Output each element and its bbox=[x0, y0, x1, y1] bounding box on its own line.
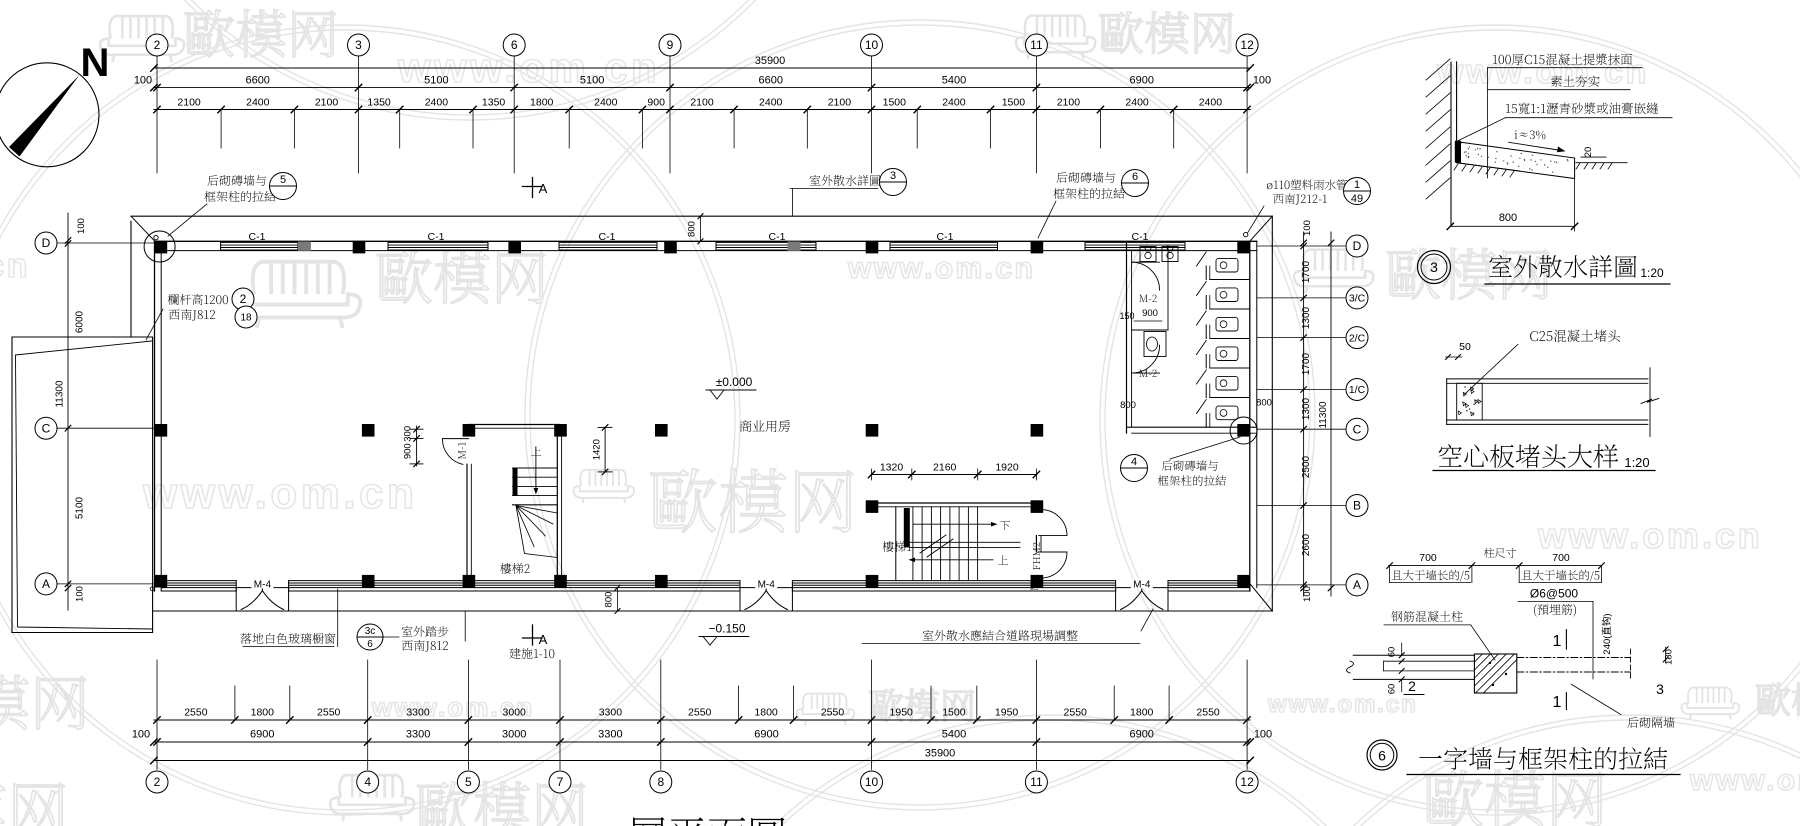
urinal nook bbox=[1167, 246, 1169, 330]
svg-text:6600: 6600 bbox=[759, 75, 783, 87]
svg-text:A: A bbox=[42, 577, 50, 591]
svg-text:1500: 1500 bbox=[883, 97, 907, 109]
stair2 door M-1 bbox=[442, 438, 468, 440]
svg-text:5: 5 bbox=[280, 174, 286, 186]
svg-text:5: 5 bbox=[465, 775, 472, 789]
bottom grid bubbles and lines bbox=[156, 660, 158, 770]
circled column C/12 (tie ref 4) bbox=[1237, 424, 1250, 437]
svg-text:800: 800 bbox=[1256, 398, 1272, 409]
svg-text:6900: 6900 bbox=[754, 729, 778, 741]
detail1 joint bar bbox=[1455, 141, 1461, 163]
svg-text:C-1: C-1 bbox=[769, 231, 786, 243]
stair1 bbox=[872, 502, 1037, 504]
svg-text:20: 20 bbox=[1583, 147, 1594, 158]
svg-text:800: 800 bbox=[1120, 400, 1136, 411]
svg-text:180: 180 bbox=[1664, 649, 1675, 665]
front wall D bbox=[155, 240, 1257, 242]
detail3 title bbox=[1367, 740, 1397, 770]
svg-text:3: 3 bbox=[1430, 259, 1438, 275]
rain pipe circle D/12 bbox=[1244, 232, 1248, 236]
ramp outline bbox=[12, 337, 153, 633]
detail1 wall bbox=[1450, 62, 1452, 226]
svg-text:1800: 1800 bbox=[530, 97, 554, 109]
svg-text:100: 100 bbox=[1253, 75, 1271, 87]
section mark A top bbox=[532, 178, 534, 198]
svg-text:49: 49 bbox=[1351, 193, 1363, 205]
svg-text:10: 10 bbox=[865, 775, 879, 789]
svg-text:C: C bbox=[42, 421, 51, 435]
svg-text:1:20: 1:20 bbox=[1640, 266, 1664, 280]
bottom 800 canopy dim bbox=[617, 588, 619, 611]
svg-text:100: 100 bbox=[75, 586, 86, 602]
svg-text:100: 100 bbox=[134, 75, 152, 87]
svg-text:100: 100 bbox=[1254, 729, 1272, 741]
svg-text:2400: 2400 bbox=[759, 97, 783, 109]
800 dim bbox=[1450, 225, 1574, 227]
svg-text:1800: 1800 bbox=[754, 707, 778, 719]
column hatched bbox=[1474, 654, 1516, 693]
stair2 winders bbox=[513, 505, 558, 558]
svg-text:35900: 35900 bbox=[755, 55, 786, 67]
svg-text:−0.150: −0.150 bbox=[708, 622, 745, 636]
svg-text:1350: 1350 bbox=[482, 97, 506, 109]
svg-text:6900: 6900 bbox=[1130, 75, 1154, 87]
svg-text:2: 2 bbox=[240, 292, 247, 306]
detail2 break bbox=[1649, 368, 1651, 437]
svg-text:150: 150 bbox=[1119, 311, 1134, 321]
svg-text:3: 3 bbox=[1656, 681, 1664, 697]
detail2 slab bbox=[1447, 378, 1648, 380]
svg-text:3000: 3000 bbox=[503, 707, 527, 719]
svg-text:C: C bbox=[1353, 422, 1362, 436]
columns bbox=[155, 241, 168, 254]
svg-text:2100: 2100 bbox=[315, 97, 339, 109]
top 800 canopy dim bbox=[700, 216, 702, 241]
svg-text:2400: 2400 bbox=[594, 97, 618, 109]
svg-text:6: 6 bbox=[367, 639, 373, 650]
svg-text:900: 900 bbox=[403, 443, 414, 459]
rebar dash-dot bbox=[1517, 657, 1631, 659]
svg-text:2400: 2400 bbox=[1199, 97, 1223, 109]
detail3 dims top bbox=[1389, 565, 1602, 567]
bottom dim row3 bbox=[154, 760, 1250, 762]
i=3% arrow bbox=[1509, 142, 1560, 150]
stair1 treads bbox=[912, 507, 914, 581]
stair1 doors bbox=[1039, 510, 1067, 536]
leader from rebar label bbox=[1518, 600, 1593, 602]
svg-text:1420: 1420 bbox=[592, 439, 603, 460]
svg-text:300: 300 bbox=[403, 426, 414, 442]
detail1 wall hatch bbox=[1426, 59, 1450, 199]
plug hatched bbox=[1457, 383, 1483, 420]
section marks 1 bbox=[1565, 630, 1567, 649]
detail3 wall plan bbox=[1353, 654, 1474, 656]
svg-text:6: 6 bbox=[511, 38, 518, 52]
svg-text:100: 100 bbox=[132, 729, 150, 741]
room label bbox=[740, 420, 790, 432]
svg-text:2: 2 bbox=[1408, 678, 1416, 694]
svg-text:11300: 11300 bbox=[55, 380, 66, 408]
detail1 title bbox=[1418, 251, 1451, 284]
svg-text:C-1: C-1 bbox=[937, 231, 954, 243]
svg-text:2550: 2550 bbox=[317, 707, 341, 719]
svg-text:4: 4 bbox=[1131, 456, 1137, 468]
svg-text:2550: 2550 bbox=[1064, 707, 1088, 719]
svg-text:4: 4 bbox=[364, 775, 371, 789]
svg-text:1500: 1500 bbox=[1002, 97, 1026, 109]
svg-text:6900: 6900 bbox=[1129, 729, 1153, 741]
stair2 treads bbox=[513, 467, 558, 469]
apron note bottom bbox=[923, 630, 1078, 641]
svg-text:8: 8 bbox=[657, 775, 664, 789]
stall partitions bbox=[1210, 279, 1250, 281]
svg-text:6000: 6000 bbox=[75, 310, 86, 333]
svg-text:12: 12 bbox=[1240, 38, 1254, 52]
svg-text:2100: 2100 bbox=[1057, 97, 1081, 109]
svg-text:11300: 11300 bbox=[1318, 401, 1329, 429]
callout tie-5 bbox=[207, 175, 266, 186]
svg-text:1: 1 bbox=[1354, 179, 1360, 191]
svg-text:1: 1 bbox=[1553, 633, 1562, 650]
svg-text:M-4: M-4 bbox=[1133, 579, 1151, 590]
svg-text:11: 11 bbox=[1030, 775, 1043, 789]
detail1 slab bbox=[1457, 142, 1575, 178]
svg-text:±0.000: ±0.000 bbox=[716, 375, 753, 389]
svg-text:C-1: C-1 bbox=[1132, 231, 1149, 243]
M-4 double doors bbox=[236, 587, 288, 589]
break mark bbox=[920, 535, 953, 557]
toilets bbox=[1216, 258, 1238, 272]
svg-text:1950: 1950 bbox=[890, 707, 914, 719]
svg-text:5400: 5400 bbox=[942, 729, 966, 741]
svg-text:9: 9 bbox=[667, 38, 674, 52]
svg-text:700: 700 bbox=[1419, 552, 1437, 564]
ground hatch left bbox=[1454, 164, 1514, 177]
svg-text:1800: 1800 bbox=[1130, 707, 1154, 719]
svg-text:3300: 3300 bbox=[598, 729, 622, 741]
svg-text:3300: 3300 bbox=[599, 707, 623, 719]
stair1 dims bbox=[872, 474, 1037, 476]
svg-text:60: 60 bbox=[1387, 647, 1398, 658]
sinks bbox=[1140, 247, 1156, 262]
left bubbles + dims bbox=[35, 232, 57, 254]
svg-text:2550: 2550 bbox=[1196, 707, 1220, 719]
svg-text:A: A bbox=[1353, 578, 1361, 592]
svg-text:900: 900 bbox=[647, 97, 665, 109]
svg-text:www.om.cn: www.om.cn bbox=[847, 252, 1035, 285]
detail2 title bbox=[1439, 444, 1619, 468]
svg-text:100: 100 bbox=[1302, 220, 1313, 236]
rear wall A glazing bbox=[161, 580, 236, 582]
20 dim bbox=[1581, 156, 1606, 158]
bottom dim row2 bbox=[154, 741, 1250, 743]
svg-text:35900: 35900 bbox=[925, 748, 956, 760]
svg-text:2550: 2550 bbox=[821, 707, 845, 719]
svg-text:3: 3 bbox=[355, 38, 362, 52]
shopfront label bbox=[240, 633, 335, 644]
stair2 walls bbox=[468, 424, 560, 426]
svg-text:1700: 1700 bbox=[1301, 260, 1312, 283]
corner circle D/2 bbox=[144, 231, 175, 262]
svg-text:2100: 2100 bbox=[828, 97, 852, 109]
svg-text:B: B bbox=[1353, 499, 1361, 513]
svg-text:6600: 6600 bbox=[245, 75, 269, 87]
svg-text:1920: 1920 bbox=[995, 462, 1019, 474]
svg-text:100: 100 bbox=[76, 218, 87, 234]
steps callout bbox=[357, 624, 383, 650]
stair2 up arrow bbox=[535, 447, 537, 490]
slab stipple bbox=[1464, 146, 1569, 173]
apron outline bbox=[131, 215, 1272, 217]
svg-text:A: A bbox=[539, 181, 548, 196]
svg-text:2: 2 bbox=[154, 775, 161, 789]
labels bbox=[1391, 611, 1462, 622]
svg-text:2600: 2600 bbox=[1301, 533, 1312, 556]
svg-text:M-4: M-4 bbox=[758, 579, 776, 590]
svg-text:2400: 2400 bbox=[246, 97, 270, 109]
svg-text:2: 2 bbox=[154, 38, 161, 52]
railing label bbox=[168, 294, 228, 305]
svg-text:10: 10 bbox=[865, 38, 879, 52]
top dim row1 35900 bbox=[154, 67, 1250, 69]
svg-text:6: 6 bbox=[1132, 171, 1138, 183]
svg-text:2550: 2550 bbox=[688, 707, 712, 719]
svg-text:800: 800 bbox=[604, 592, 615, 608]
svg-text:3300: 3300 bbox=[406, 729, 430, 741]
svg-text:12: 12 bbox=[1240, 775, 1254, 789]
svg-text:3000: 3000 bbox=[502, 729, 526, 741]
toilet room walls bbox=[1126, 241, 1128, 433]
svg-text:1800: 1800 bbox=[251, 707, 275, 719]
svg-text:Ø6@500: Ø6@500 bbox=[1530, 587, 1579, 601]
svg-text:2400: 2400 bbox=[425, 97, 449, 109]
detail2 label bbox=[1530, 330, 1620, 342]
north arrow bbox=[0, 63, 99, 167]
run arrows bbox=[913, 523, 993, 525]
windows C-1 bbox=[221, 242, 298, 244]
stair2 dims bbox=[416, 426, 418, 466]
callout rainpipe bbox=[1267, 179, 1347, 190]
svg-text:2100: 2100 bbox=[690, 97, 714, 109]
svg-text:1300: 1300 bbox=[1301, 397, 1312, 420]
svg-text:900: 900 bbox=[1142, 308, 1158, 319]
svg-text:C-1: C-1 bbox=[599, 231, 616, 243]
top dim row2 bbox=[154, 87, 1250, 89]
svg-text:5400: 5400 bbox=[942, 75, 966, 87]
top dim row3 bbox=[154, 109, 1250, 111]
svg-text:N: N bbox=[81, 41, 110, 85]
svg-text:50: 50 bbox=[1459, 341, 1471, 353]
gray piers bbox=[298, 242, 311, 251]
svg-text:100: 100 bbox=[1302, 586, 1313, 602]
bottom dim row1 bbox=[154, 719, 1250, 721]
svg-text:800: 800 bbox=[687, 221, 698, 237]
svg-text:5100: 5100 bbox=[580, 75, 604, 87]
svg-text:D: D bbox=[42, 236, 51, 250]
svg-text:M-4: M-4 bbox=[254, 579, 272, 590]
detail1 labels bbox=[1493, 54, 1632, 65]
apron corner diagonals bbox=[131, 216, 155, 241]
svg-text:18: 18 bbox=[240, 313, 252, 324]
svg-text:C-1: C-1 bbox=[428, 231, 445, 243]
svg-text:www.om.cn: www.om.cn bbox=[1537, 515, 1763, 556]
svg-text:1950: 1950 bbox=[995, 707, 1019, 719]
stall front bbox=[1205, 266, 1207, 280]
callout tie-4 bbox=[1121, 455, 1148, 482]
svg-text:3/C: 3/C bbox=[1349, 293, 1366, 305]
svg-text:2/C: 2/C bbox=[1349, 332, 1366, 344]
svg-text:3c: 3c bbox=[365, 626, 376, 637]
svg-text:1350: 1350 bbox=[367, 97, 391, 109]
section mark A bottom + 建施 bbox=[532, 625, 534, 645]
left wall bbox=[154, 241, 156, 591]
svg-text:60: 60 bbox=[1387, 684, 1398, 695]
svg-text:2550: 2550 bbox=[184, 707, 208, 719]
svg-text:1320: 1320 bbox=[880, 462, 904, 474]
svg-text:2160: 2160 bbox=[933, 462, 957, 474]
callout tie-6 bbox=[1056, 172, 1115, 183]
svg-text:11: 11 bbox=[1030, 38, 1043, 52]
svg-text:www.om.cn: www.om.cn bbox=[142, 469, 418, 518]
svg-text:240(直钩): 240(直钩) bbox=[1601, 613, 1613, 654]
right wall bbox=[1249, 241, 1251, 591]
svg-text:3300: 3300 bbox=[406, 707, 430, 719]
right bubbles + dims bbox=[1257, 245, 1345, 247]
svg-text:1700: 1700 bbox=[1301, 352, 1312, 375]
svg-text:700: 700 bbox=[1552, 552, 1570, 564]
svg-text:1/C: 1/C bbox=[1349, 384, 1366, 396]
svg-text:6900: 6900 bbox=[250, 729, 274, 741]
svg-text:2400: 2400 bbox=[1125, 97, 1149, 109]
bottom partial title bbox=[589, 817, 784, 826]
svg-text:3: 3 bbox=[890, 170, 896, 182]
svg-text:7: 7 bbox=[557, 775, 564, 789]
svg-text:A: A bbox=[539, 632, 548, 647]
svg-text:2500: 2500 bbox=[1301, 455, 1312, 478]
svg-text:D: D bbox=[1353, 239, 1362, 253]
top grid bubbles and lines bbox=[156, 57, 158, 174]
toilet M-2 doors bbox=[1132, 262, 1160, 290]
svg-text:2100: 2100 bbox=[177, 97, 201, 109]
svg-text:6: 6 bbox=[1378, 748, 1386, 764]
svg-text:1: 1 bbox=[1553, 694, 1562, 711]
svg-text:C-1: C-1 bbox=[249, 231, 266, 243]
svg-text:5100: 5100 bbox=[75, 496, 86, 519]
wall slot bbox=[1384, 660, 1475, 662]
ground right bbox=[1576, 162, 1627, 164]
svg-text:5100: 5100 bbox=[424, 75, 448, 87]
svg-text:1300: 1300 bbox=[1301, 306, 1312, 329]
svg-text:m.cn: m.cn bbox=[0, 247, 30, 285]
svg-text:800: 800 bbox=[1499, 212, 1517, 224]
svg-text:2400: 2400 bbox=[942, 97, 966, 109]
svg-text:1:20: 1:20 bbox=[1624, 455, 1649, 470]
svg-text:1500: 1500 bbox=[942, 707, 966, 719]
svg-text:www.om.cn: www.om.cn bbox=[1689, 764, 1800, 797]
callout apron-3 bbox=[810, 175, 881, 186]
